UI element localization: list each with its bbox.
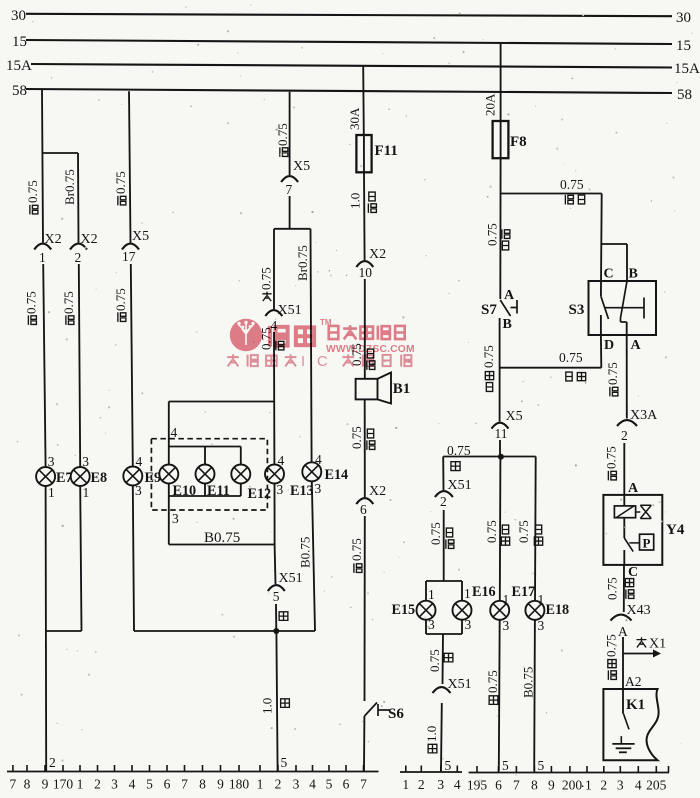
svg-text:1: 1: [402, 777, 409, 792]
svg-text:X51: X51: [279, 571, 303, 586]
to X1 label: [636, 637, 646, 647]
svg-text:0.75: 0.75: [484, 223, 499, 246]
K1 wire in: [622, 689, 624, 714]
wire junction rail down to lamp E18: [534, 457, 537, 602]
measuring scale segment 3: [469, 772, 669, 774]
wire X2-10 down to horn B1: [364, 279, 366, 379]
svg-text:X5: X5: [293, 159, 310, 174]
svg-text:0.75: 0.75: [258, 267, 273, 290]
switch S3 box: [589, 281, 657, 335]
wire feed down to S3 C: [600, 194, 603, 297]
wire E12 bottom lead: [240, 483, 242, 496]
K1 switch blade: [624, 714, 630, 730]
wire S3 A down to connector X3A: [626, 335, 628, 419]
svg-text:Br0.75: Br0.75: [295, 245, 310, 281]
svg-text:D: D: [604, 338, 614, 353]
svg-text:200: 200: [562, 778, 583, 793]
Y4 wire coil down: [623, 518, 625, 538]
svg-text:4: 4: [635, 778, 642, 793]
svg-text:2: 2: [49, 755, 56, 770]
wire X51-2 down to lamp pair: [443, 510, 445, 581]
svg-text:C: C: [604, 267, 614, 282]
rail B bottom: [134, 630, 315, 632]
wire from bus 58 down to connector X2 pin1: [42, 90, 43, 243]
svg-text:K1: K1: [626, 697, 645, 713]
fuse F8: [493, 121, 509, 158]
svg-text:4: 4: [278, 453, 285, 468]
svg-text:30: 30: [676, 10, 691, 26]
connector X5 pin 11: [492, 423, 509, 429]
svg-text:B0.75: B0.75: [204, 530, 240, 546]
relay K1 box with torn edge: [603, 689, 658, 760]
Y4 valve symbol: [640, 505, 651, 518]
wire X3A to Y4 terminal A: [623, 443, 625, 495]
wire bus 58 down to X5 pin7: [289, 92, 291, 175]
svg-text:0.75: 0.75: [559, 350, 583, 365]
svg-text:1: 1: [585, 778, 592, 793]
svg-text:6: 6: [360, 502, 367, 517]
svg-text:X5: X5: [132, 229, 149, 244]
svg-text:1.0: 1.0: [424, 726, 439, 742]
svg-text:9: 9: [217, 777, 224, 792]
Y4 switch blade: [624, 538, 633, 552]
svg-text:B1: B1: [393, 381, 411, 397]
measuring scale segment 1: [7, 771, 379, 773]
svg-text:0.75: 0.75: [427, 649, 442, 672]
wire X51 down to scale: [440, 703, 443, 771]
svg-text:3: 3: [315, 481, 322, 496]
bus 30 wire: [26, 14, 672, 16]
svg-text:2: 2: [418, 777, 425, 792]
svg-text:1.0: 1.0: [259, 698, 274, 714]
wire E17 down to scale: [498, 620, 501, 771]
connector X51 below lamp pair: [433, 687, 451, 693]
svg-text:7: 7: [360, 777, 367, 792]
lamp E9: [123, 467, 142, 486]
connector X2 pin 10: [356, 261, 373, 267]
svg-text:58: 58: [12, 83, 27, 99]
svg-text:0.75: 0.75: [61, 291, 76, 314]
wire X2-6 down to switch S6: [364, 516, 366, 701]
connector X2 pin 1: [34, 244, 51, 250]
svg-text:B0.75: B0.75: [520, 667, 535, 698]
svg-text:E8: E8: [91, 470, 108, 486]
lamp E14: [302, 462, 321, 481]
svg-text:6: 6: [495, 778, 502, 793]
wire S6 down to scale: [363, 716, 365, 771]
lamp E17: [490, 601, 509, 620]
lamp pair loop: [426, 580, 462, 582]
wire branch white-blue to S3 D: [500, 367, 602, 369]
svg-text:F11: F11: [375, 143, 398, 159]
watermark: [227, 318, 415, 370]
svg-text:0.75: 0.75: [603, 446, 618, 469]
svg-text:X51: X51: [278, 303, 302, 318]
svg-text:5: 5: [146, 777, 153, 792]
rail A joining E8 to E7 wire: [46, 630, 82, 632]
svg-text:1: 1: [503, 592, 510, 607]
svg-text:S6: S6: [388, 706, 404, 722]
wire split top rail: [274, 228, 311, 230]
wire X2-2 to lamp E8: [79, 264, 80, 467]
wire down into dashed box: [168, 402, 170, 447]
wire E12 top lead: [240, 447, 242, 466]
wire S3 D to white-blue branch: [600, 335, 602, 368]
S3 right blade: [621, 281, 628, 318]
arrow to X1: [623, 653, 654, 655]
junction dot: [498, 454, 504, 460]
svg-text:0.75: 0.75: [25, 180, 40, 203]
svg-text:E13: E13: [290, 483, 314, 499]
svg-text:3: 3: [428, 617, 435, 632]
svg-text:8: 8: [531, 778, 538, 793]
svg-text:15A: 15A: [6, 58, 32, 74]
wire bus 15 down to fuse F8: [500, 43, 502, 122]
svg-text:7: 7: [10, 777, 17, 792]
svg-text:A2: A2: [625, 674, 642, 689]
svg-text:20A: 20A: [482, 93, 497, 116]
connector X51 pin 5: [268, 585, 285, 591]
wire E9 lamp down to rail B: [133, 485, 134, 631]
B0.75 rail: [169, 544, 275, 546]
svg-text:0.75: 0.75: [485, 670, 500, 693]
svg-text:3: 3: [503, 618, 510, 633]
wire F8 down to switch S7: [499, 158, 501, 299]
svg-text:0.75: 0.75: [113, 171, 128, 194]
wire E14 lamp down to rail B: [312, 481, 315, 631]
svg-text:1: 1: [538, 592, 545, 607]
wire junction to connector X51 pin2: [442, 457, 444, 491]
S3 crossbar: [605, 307, 645, 309]
svg-text:A: A: [618, 624, 628, 639]
svg-text:2: 2: [621, 428, 628, 443]
svg-text:1: 1: [257, 777, 264, 792]
svg-text:15: 15: [676, 38, 691, 54]
svg-text:E18: E18: [546, 602, 570, 618]
svg-text:3: 3: [437, 777, 444, 792]
svg-text:0.75: 0.75: [349, 538, 364, 561]
svg-text:E10: E10: [173, 483, 197, 499]
wire X5-7 to split: [289, 196, 291, 229]
svg-text:205: 205: [646, 778, 667, 793]
svg-text:.: .: [581, 775, 584, 790]
svg-text:2: 2: [275, 777, 282, 792]
svg-text:5: 5: [445, 758, 452, 773]
wire E11 top lead: [204, 447, 206, 466]
black wire label: [279, 612, 288, 621]
svg-text:WWW.DZSC.COM: WWW.DZSC.COM: [326, 344, 415, 355]
svg-text:4: 4: [171, 425, 178, 440]
svg-text:1.0: 1.0: [347, 193, 362, 209]
svg-text:X3A: X3A: [630, 408, 658, 423]
svg-text:E14: E14: [325, 467, 349, 483]
svg-text:I: I: [301, 354, 305, 370]
svg-text:A: A: [504, 288, 515, 303]
wire down to connector X2 pin2: [77, 153, 80, 243]
svg-text:X2: X2: [369, 484, 386, 499]
svg-text:X5: X5: [506, 409, 523, 424]
svg-text:C: C: [317, 354, 327, 370]
connector X5 pin 17: [122, 244, 139, 250]
svg-text:4: 4: [309, 777, 316, 792]
svg-text:1: 1: [428, 587, 435, 602]
svg-text:9: 9: [548, 778, 555, 793]
connector X51 pin 4: [265, 310, 282, 316]
svg-text:X2: X2: [81, 232, 98, 247]
svg-text:0.75: 0.75: [349, 426, 364, 449]
solenoid valve unit Y4 box: [603, 495, 662, 565]
svg-text:B: B: [629, 267, 638, 282]
svg-text:P: P: [643, 536, 651, 551]
svg-text:10: 10: [359, 265, 373, 280]
wire X51-5 to junction: [275, 604, 277, 631]
wire E7 lamp down to scale: [45, 486, 48, 771]
svg-text:3: 3: [82, 454, 89, 469]
svg-text:0.75: 0.75: [604, 577, 619, 600]
junction dot on rail B: [273, 628, 279, 634]
svg-text:3: 3: [465, 617, 472, 632]
svg-text:5: 5: [281, 755, 288, 770]
svg-text:Br0.75: Br0.75: [62, 169, 77, 205]
wire rail to lamp group: [169, 401, 274, 403]
svg-text:1: 1: [77, 777, 84, 792]
Y4 relay coil: [614, 506, 635, 518]
lamp E18: [525, 601, 544, 620]
wire branch to X2 pin2: [42, 152, 78, 154]
wire lamp pair down to X51: [442, 634, 445, 684]
lamp E16: [453, 601, 472, 620]
svg-text:170: 170: [53, 777, 74, 792]
svg-text:3: 3: [111, 777, 118, 792]
svg-text:E11: E11: [207, 483, 230, 499]
lamp E13: [265, 465, 284, 484]
wire S3 A down inside box: [626, 322, 628, 335]
wire E13 lamp down to B0.75 rail: [274, 483, 276, 544]
svg-text:8: 8: [24, 777, 31, 792]
wire B1 down to connector X2 pin6: [364, 399, 366, 497]
bus 15A wire: [31, 64, 672, 68]
wire from bus 58 down to connector X5 pin17: [129, 91, 131, 242]
wire Y4 C down to X43: [623, 565, 625, 612]
S3 right contact bar: [643, 298, 645, 319]
svg-text:0.75: 0.75: [481, 345, 496, 368]
wire X5-11 to junction node: [499, 440, 501, 457]
svg-text:4: 4: [136, 454, 143, 469]
wire X43 to relay K1: [622, 637, 624, 689]
lamp E15: [417, 601, 436, 620]
connector X2 pin 6: [356, 498, 373, 504]
inner bottom rail: [169, 495, 241, 497]
svg-text:7: 7: [181, 777, 188, 792]
svg-text:2: 2: [75, 250, 82, 265]
fuse F11: [356, 135, 371, 172]
svg-text:1: 1: [464, 586, 471, 601]
svg-text:0.75: 0.75: [447, 443, 471, 458]
wire exit dashed box down: [168, 496, 170, 545]
svg-text:0.75: 0.75: [275, 123, 290, 146]
svg-text:3: 3: [538, 618, 545, 633]
wire E11 bottom lead: [204, 483, 206, 496]
horn B1: [356, 379, 378, 400]
svg-text:7: 7: [513, 778, 520, 793]
branch label red-white: [565, 195, 573, 204]
svg-text:E12: E12: [248, 486, 272, 502]
svg-text:6: 6: [343, 777, 350, 792]
svg-text:A: A: [628, 481, 639, 496]
svg-text:180: 180: [229, 777, 250, 792]
svg-text:E15: E15: [392, 602, 416, 618]
wire junction down to lamp E17: [499, 457, 502, 602]
svg-text:0.75: 0.75: [605, 362, 620, 385]
Y4 pressure switch link: [629, 542, 639, 544]
svg-text:1: 1: [39, 250, 46, 265]
wire left branch to X51 pin4: [273, 229, 275, 309]
Y4 pressure switch P box: [640, 534, 654, 550]
bus 15 wire: [26, 40, 672, 44]
svg-text:9: 9: [42, 777, 49, 792]
branch label white-blue: [566, 372, 572, 381]
svg-text:3: 3: [277, 482, 284, 497]
svg-text:B: B: [503, 317, 512, 332]
svg-text:15A: 15A: [674, 61, 700, 77]
svg-text:58: 58: [677, 87, 692, 103]
svg-text:X51: X51: [448, 478, 472, 493]
svg-text:5: 5: [502, 758, 509, 773]
svg-text:0.75: 0.75: [113, 288, 128, 311]
svg-text:6: 6: [164, 777, 171, 792]
svg-text:5: 5: [273, 589, 280, 604]
Y4 wire A to coil: [623, 495, 625, 506]
Y4 wire to C: [623, 550, 625, 565]
lamp E10: [159, 465, 178, 484]
connector X2 pin 2: [70, 244, 87, 250]
svg-text:5: 5: [538, 758, 545, 773]
svg-text:17: 17: [122, 249, 136, 264]
svg-text:S7: S7: [481, 302, 497, 318]
lamp E11: [196, 465, 215, 484]
wire X2-1 to lamp E7: [43, 264, 45, 467]
bus 58 wire: [26, 89, 672, 93]
junction rail label yellow: [451, 462, 460, 471]
svg-text:30: 30: [11, 8, 26, 24]
wire X5-17 to lamp E9: [131, 264, 133, 467]
svg-text:3: 3: [135, 483, 142, 498]
svg-text:2: 2: [600, 778, 607, 793]
switch S6: [365, 703, 378, 717]
svg-text:Y4: Y4: [666, 522, 685, 538]
dashed enclosure of lamp group E10-E12: [151, 439, 267, 510]
svg-text:F8: F8: [510, 134, 527, 150]
svg-text:3: 3: [172, 511, 179, 526]
wire F11 to connector X2 pin10: [363, 172, 366, 260]
svg-text:4: 4: [315, 452, 322, 467]
wire to connector X51 pin5: [274, 545, 277, 585]
svg-text:C: C: [628, 565, 638, 580]
S3 left blade: [601, 296, 609, 319]
svg-text:X1: X1: [649, 637, 666, 652]
wire E18 down to scale: [533, 620, 536, 771]
wire right branch Br0.75 down to lamp E14: [311, 229, 312, 463]
wire E10 through leads: [168, 447, 170, 466]
svg-text:X43: X43: [627, 603, 651, 618]
svg-text:7: 7: [286, 182, 293, 197]
svg-text:X51: X51: [448, 677, 472, 692]
svg-text:4: 4: [129, 777, 136, 792]
inner top rail: [169, 446, 241, 448]
wire bus 15A down to fuse F11: [362, 67, 365, 136]
wire feed jog to S3 B: [602, 243, 627, 245]
wire X51-4 down to node: [273, 332, 275, 402]
svg-text:0.75: 0.75: [484, 520, 499, 543]
connector X3A pin 2: [617, 420, 637, 426]
svg-text:5: 5: [326, 777, 333, 792]
svg-text:3: 3: [617, 778, 624, 793]
wire junction down to scale: [276, 631, 277, 771]
svg-text:2: 2: [440, 494, 447, 509]
connector X51 pin 2: [435, 491, 453, 497]
svg-text:11: 11: [495, 426, 508, 441]
svg-text:3: 3: [48, 454, 55, 469]
lamp E8: [71, 467, 90, 486]
connector X43 pin A: [611, 615, 632, 621]
wire branch to S3 feeds: [501, 193, 602, 195]
svg-text:X2: X2: [369, 247, 386, 262]
junction rail: [443, 456, 536, 458]
wire S3 D down inside box: [600, 315, 602, 335]
svg-text:0.75: 0.75: [516, 520, 531, 543]
svg-text:B0.75: B0.75: [297, 537, 312, 568]
ground symbol in K1: [612, 743, 634, 745]
svg-text:0.75: 0.75: [23, 291, 38, 314]
Y4 coil-valve link: [636, 511, 641, 513]
lamp E12: [231, 465, 250, 484]
svg-text:E17: E17: [512, 584, 536, 600]
measuring scale segment 2: [400, 771, 462, 773]
svg-text:S3: S3: [569, 302, 585, 318]
svg-text:0.75: 0.75: [560, 177, 584, 192]
wire E8 lamp down to rail A: [80, 486, 81, 631]
svg-text:E9: E9: [145, 470, 162, 486]
svg-text:195: 195: [467, 778, 488, 793]
svg-text:30A: 30A: [347, 107, 362, 130]
svg-text:8: 8: [199, 777, 206, 792]
svg-text:1: 1: [83, 485, 90, 500]
wire E13 node down to lamp: [273, 402, 275, 465]
svg-text:0.75: 0.75: [428, 522, 443, 545]
lamp E7: [36, 467, 55, 486]
K1 ground lead: [620, 736, 622, 744]
svg-text:2: 2: [94, 777, 101, 792]
svg-text:4: 4: [454, 777, 461, 792]
svg-text:15: 15: [12, 34, 27, 50]
svg-text:1: 1: [48, 485, 55, 500]
wire S7 to connector X5 pin11: [499, 318, 501, 422]
connector X5 pin 7: [281, 176, 298, 182]
svg-text:E16: E16: [472, 584, 496, 600]
svg-text:X2: X2: [45, 232, 62, 247]
svg-text:3: 3: [293, 777, 300, 792]
svg-text:A: A: [631, 338, 642, 353]
